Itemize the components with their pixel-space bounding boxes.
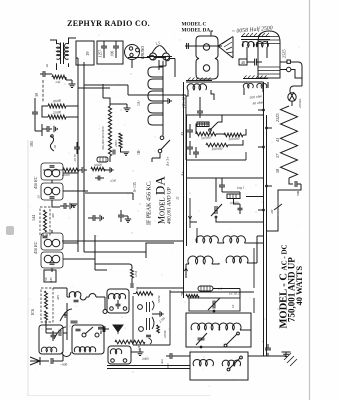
osc padder box [189,298,240,311]
wire speaker top lead [211,31,213,36]
variable capacitor C8 [60,309,72,321]
ant box2 terminal b [95,333,99,337]
phono jack contacts [129,47,139,57]
label 40 box [239,59,247,65]
capacitor C21 [40,71,49,77]
label A plus top [181,171,185,176]
capacitor C24 gnd [98,327,104,334]
coil box mid A [107,289,129,313]
capacitor C6 [60,203,69,209]
speaker magnet upper circle [203,44,209,50]
capacitor C11 [116,300,121,309]
ground G3 [110,104,131,112]
ant box1 trimmer [51,331,56,341]
label 11 smudge [175,196,180,200]
svg-text:40 WATTS: 40 WATTS [294,266,304,306]
speaker body [196,36,218,79]
heater ballast resistor [281,106,298,178]
label B minus [137,149,141,155]
tube triode1 cathode [138,305,143,310]
svg-text:185: 185 [29,141,34,147]
svg-text:.1257: .1257 [99,50,103,58]
speaker field box 19 [76,41,94,65]
ground G6 [71,204,77,207]
second det box corner [146,243,174,258]
tube triode1 plate [152,301,154,310]
T2 winding A [242,41,254,47]
wire bottom box leads [176,355,264,357]
wire det hook [149,338,152,344]
svg-text:144: 144 [31,215,36,221]
resistor pill R11 [198,286,213,291]
IFT3 winding [187,84,206,90]
IFT2 trimmer [43,236,48,238]
capacitor C30 [197,97,203,118]
IFT4 core hatch [244,76,267,79]
terminal circle [287,67,291,71]
bus wire left A [77,58,79,252]
resistor R1 zigzag [48,104,66,108]
wire left lower joins [63,173,95,259]
svg-text:.05 50: .05 50 [73,154,77,162]
IF T1 box lower [41,183,63,200]
svg-text:25Z5: 25Z5 [282,49,287,58]
T2 core hatch [242,33,269,36]
wire mid section [216,178,264,222]
wire to grounds [264,355,283,357]
ant box2 terminal a [82,333,86,337]
antenna symbol [30,357,40,365]
label 1M [137,345,141,350]
label 25Z5 can [282,49,287,58]
wire row241 [62,240,184,242]
speaker cone hatch [222,38,233,53]
svg-text:250MA: 250MA [298,99,302,108]
capacitor C ant [51,354,63,364]
svg-text:0+135: 0+135 [133,182,137,192]
wire y193 [85,193,133,200]
osc coil trimmer [74,300,79,302]
capacitor C3 [79,167,87,173]
wire A2 stub [186,264,189,278]
resistor R2 zigzag [48,115,66,119]
ground G7 [100,215,103,221]
switch SW2 contacts [158,136,164,153]
tube triode2 grid [147,318,150,330]
label 4558 [37,195,41,199]
capacitor C line 500 [295,181,301,187]
wire band link [219,329,251,331]
wire can terminals [280,62,302,86]
ant coil 1 winding [41,347,56,352]
IFT2b trimmer [50,263,55,265]
label 185 [29,141,34,147]
label 40 WATTS [294,266,304,306]
svg-text:485: 485 [56,295,60,300]
wire T2 leads [243,41,268,60]
wire osc coil left [53,288,70,297]
resistor R22 small [157,325,160,333]
band coil box [186,313,251,347]
label 1A minus [137,99,141,106]
wire SW2 down [152,153,160,162]
capacitor C17a [238,204,243,214]
capacitor .1257 [101,41,107,58]
svg-text:Img 1: Img 1 [236,185,245,190]
svg-text:.05: .05 [135,287,139,291]
IFT2b winding circles [44,255,60,263]
svg-text:1A-: 1A- [137,99,141,106]
label 43 mid [180,132,185,136]
arrow up tick [184,268,187,271]
label .02 left [45,64,49,68]
bus tap 2 [266,127,272,129]
label 16 [231,304,235,308]
capacitor C23 [98,326,109,332]
label 19 [85,51,90,56]
svg-text:500: 500 [296,191,300,196]
bottom switch SW6 [227,356,242,371]
IFT3 core line [186,80,212,82]
svg-text:19: 19 [85,51,90,56]
svg-text:78: 78 [180,292,185,296]
label 300 ohm [249,94,262,100]
dial lamp pair [147,46,172,61]
coil group A1 [196,236,218,243]
ground G9 [131,348,144,356]
capacitor C5a [113,150,115,155]
switch SW2 lever [161,140,170,150]
speaker cone [218,37,233,59]
wire row270 [95,235,107,270]
capacitor speaker lead [187,43,189,49]
arrow down tick [188,216,191,219]
label 50000 [201,136,211,141]
svg-text:56: 56 [44,277,48,281]
label 56 [44,277,48,281]
wire loop to terminal [96,297,105,309]
speaker axis line [185,45,222,47]
bus tap 5 [258,209,264,211]
svg-text:ZEPHYR RADIO CO.: ZEPHYR RADIO CO. [67,19,150,28]
ant box2 switch [85,327,93,334]
handwritten note half 2500 [232,24,274,35]
label .1 bottom [261,340,265,343]
terminal square [287,60,290,63]
label 43 [275,138,280,142]
osc loop small [89,294,96,298]
ground chain tap [163,98,171,104]
resistor R3 zigzag [43,168,79,172]
IF T2 box upper [41,233,63,250]
IF T1 box upper [41,163,63,180]
label 40000 [62,173,71,178]
label 40 ohm [252,100,264,106]
label 900 [60,363,68,367]
wire group1 link [197,236,264,243]
label 10M [134,271,138,277]
svg-text:350M: 350M [157,295,161,303]
label 005 [166,363,170,369]
svg-text:25Z5: 25Z5 [275,113,280,122]
capacitor C7b [118,210,124,222]
resistor R8 [45,291,48,309]
tube triode1 grid [147,302,150,312]
label 50000c [94,163,103,168]
svg-text:460,001 AND UP: 460,001 AND UP [166,187,173,224]
wire R4 leads [103,84,110,162]
ballast loop 5 [148,115,163,125]
label 2.5V [155,41,161,46]
wire right vertical x254 [253,248,255,313]
T2 core lines [241,37,270,40]
bottom coil group A [193,359,213,366]
page right edge line [309,0,311,400]
capacitor C12 [146,335,151,337]
coil group B1 [223,236,245,243]
page bottom edge line [28,395,210,397]
capacitor C32 [187,141,193,155]
label 456 KC lower [33,241,38,254]
label 4W [270,208,274,214]
wire T1 bottom leads [57,63,69,70]
label MODEL C [182,22,207,28]
capacitor .006 [113,41,119,58]
svg-text:.05: .05 [37,195,41,199]
label 300000a [228,137,240,142]
svg-text:185: 185 [49,277,53,282]
svg-text:300 000: 300 000 [228,137,240,142]
label 250Mb [163,330,167,338]
svg-text:.006: .006 [111,51,115,57]
ballast loop 1 [148,67,163,77]
label 57 [275,153,280,158]
wire heater bottom [289,178,293,184]
wire loop switch [50,135,54,151]
svg-text:43: 43 [180,132,185,136]
svg-text:43: 43 [275,138,280,142]
resistor R6 2MO [119,133,122,148]
wire br top [186,291,254,293]
svg-text:.1: .1 [261,340,265,343]
label 25Z5 heater [275,113,280,122]
capacitor C20 [265,344,271,356]
coil mid A winding [108,293,125,299]
label 58 [275,168,280,173]
box audio outline [186,115,263,160]
label 40 [241,60,245,65]
resistor zigzag x91 [91,167,105,170]
wire bottom long2 [107,368,190,370]
label 2.5M [158,316,166,324]
label 185b [49,277,53,282]
title ZEPHYR RADIO CO. [67,19,150,28]
wire ant lead [40,360,49,362]
IFT4 core line [243,78,268,80]
wire left drop [190,198,197,243]
svg-text:456 KC: 456 KC [33,176,38,189]
label .05c [135,287,139,291]
osc coil upper [69,292,81,297]
ballast chain terminal right [165,56,169,60]
wire bus top bend [76,58,186,95]
coil box mid B [108,346,131,364]
transformer T1 secondary winding [65,43,69,59]
IF T2 box lower [41,252,63,268]
shield dashed box [40,207,50,235]
svg-text:10M: 10M [134,271,138,277]
label 50 [73,154,77,162]
label 78 [180,292,185,296]
resistor R23 bottom [115,340,145,344]
shield dash line [42,80,44,102]
wire osc row [213,289,240,299]
wire feed to det [95,264,132,269]
wire det to osc [137,288,186,292]
label 2500 [110,179,117,183]
label MODEL C AC-DC [279,244,290,328]
bus wire left B [83,62,85,252]
wire cluster joins [49,74,66,80]
ballast loop 2 [148,79,163,89]
capacitor C7 mid [88,215,99,221]
ground G10 [282,352,291,357]
label 456 KC upper [33,176,38,189]
ground G4 [121,148,130,155]
label J [218,287,223,291]
capacitor C40 [247,59,262,66]
ant box2 trimmer [76,329,81,331]
resistor zigzag R34 [206,143,228,147]
coil group B2 [226,256,248,263]
band switch SW5 [224,332,239,347]
label 2MO [114,140,118,147]
label 2000b [142,357,149,361]
IFT1 trimmer [50,166,55,168]
ground G7b [124,216,131,222]
svg-text:456 KC: 456 KC [33,241,38,254]
svg-text:40: 40 [241,60,245,65]
capacitor C34 [193,147,199,158]
wire dip loop [62,352,71,357]
wire 6A7 area [46,303,67,340]
wire IFT3 leads [186,90,214,115]
label 12Y [182,93,186,108]
resistor R4 350000 [108,106,111,156]
band coil group A [191,323,220,330]
resistor pill small [97,157,108,162]
resistor zigzag R33 [224,133,243,137]
label A plus 3 [166,157,170,166]
coil B terminals [111,359,127,363]
label 25000 [53,110,62,115]
wire pilot to string [291,101,293,106]
label 300000b [211,147,223,152]
label 144 [31,215,36,221]
IFT4 winding A [243,83,253,88]
svg-text:~900: ~900 [60,363,68,367]
svg-text:MODEL DA: MODEL DA [182,28,211,34]
variable capacitor C13 [208,298,220,312]
coil A terminals [110,307,127,311]
bottom osc box [190,352,248,380]
svg-text:250M: 250M [163,330,167,338]
ant coil 2 winding [74,347,95,352]
tube triode2 plate [152,317,154,329]
label 750001 AND UP [287,257,297,322]
switch lever mid [209,122,218,131]
svg-text:30000: 30000 [53,99,62,104]
wire group2 link [212,236,264,264]
IFT1 winding circles [44,169,60,177]
svg-text:IC6: IC6 [30,309,35,315]
wire from jack down [132,60,166,71]
svg-text:.02: .02 [53,145,57,149]
capacitor C14 [166,353,176,359]
bottom coil group B [222,360,240,366]
IFT2 winding circles [44,239,60,247]
svg-text:460: 460 [51,213,55,218]
trunk mid vertical A [183,82,185,298]
IFT4 winding B [257,83,267,88]
svg-text:50000: 50000 [94,163,103,168]
svg-text:2MO: 2MO [114,140,118,147]
label 350000 [101,126,106,150]
resistor mini zigzag [186,295,199,298]
capacitor C22 [131,283,133,288]
resistor R21 zigzag [52,75,66,79]
wire chain top [128,58,175,78]
label 485 [56,295,60,300]
wire mid h1 [186,177,264,179]
wire row252 [84,251,146,253]
variable capacitor C18 [196,333,207,348]
speaker magnet lower circle [203,65,209,71]
wire left mid [35,122,42,136]
resistor box R31 [197,122,209,127]
svg-text:11: 11 [175,196,180,200]
wire T1 top leads [50,38,76,44]
wire mid links [196,115,246,145]
ballast loop 4 [148,103,163,113]
ground G21 [66,80,76,88]
wire R20 down [131,278,133,283]
wire switch down [267,216,278,231]
capacitor block box [97,41,123,64]
smudge left edge [6,226,14,235]
svg-text:16: 16 [231,304,235,308]
capacitor C2 [42,126,52,132]
coil mid B winding [110,349,121,354]
electrolytic can body [258,31,280,78]
svg-text:50 000: 50 000 [201,136,211,141]
wire bus top run [186,81,264,83]
label MODEL DA rotated [153,176,168,224]
svg-text:A+ 3+: A+ 3+ [166,157,170,166]
ballast loop 3 [148,91,163,101]
wire IF column [52,180,60,272]
variable capacitor C10 [54,327,66,339]
label .1257 [99,50,103,58]
label B135 [133,182,137,192]
resistor R9 [45,311,48,320]
tube 56 box [44,270,56,282]
ground G5 [70,203,73,209]
transformer T1 core [61,43,64,65]
capacitor C1 [32,104,38,122]
resistor box R12 [227,194,240,199]
resistor R20 vertical [131,269,134,278]
